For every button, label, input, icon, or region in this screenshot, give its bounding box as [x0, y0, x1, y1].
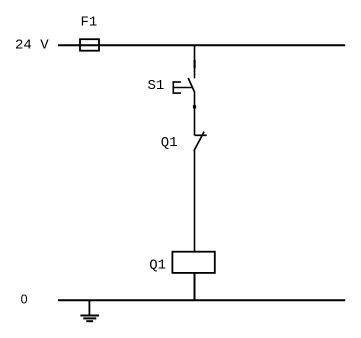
- svg-text:S1: S1: [148, 78, 165, 94]
- svg-text:Q1: Q1: [149, 258, 166, 274]
- svg-text:Q1: Q1: [161, 135, 178, 151]
- svg-text:0: 0: [21, 293, 28, 307]
- svg-text:24 V: 24 V: [15, 38, 49, 54]
- svg-text:F1: F1: [81, 15, 98, 31]
